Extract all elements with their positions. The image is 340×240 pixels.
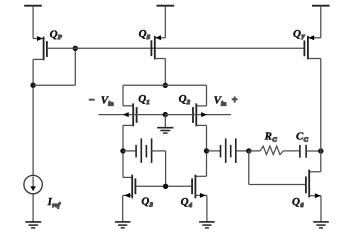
svg-text:ref: ref (52, 202, 60, 209)
wire tail rail to Q1/Q2 sources (123, 85, 207, 106)
wire QP drain down to Iref (32, 59, 34, 176)
VDD rail right (312, 6, 330, 38)
battery B2 (Q2 drain to second stage) (207, 138, 249, 163)
svg-text:2: 2 (186, 99, 191, 106)
ground (Iref) (25, 222, 41, 228)
transistor Q6 (306, 170, 321, 222)
node Q3/Q4 gate junction (163, 184, 168, 189)
label Q1 (138, 93, 149, 106)
svg-text:5: 5 (147, 34, 151, 41)
label QP (50, 28, 63, 41)
svg-text:P: P (58, 34, 63, 41)
node Q2 drain / battery junction (204, 148, 209, 153)
svg-text:in: in (108, 101, 114, 108)
wire Q3/Q4 gate line (135, 185, 192, 187)
ground (between Q1 and Q2) (157, 115, 173, 134)
svg-text:Q: Q (293, 28, 301, 40)
svg-text:C: C (272, 136, 277, 143)
svg-text:3: 3 (149, 202, 154, 209)
svg-text:Q: Q (139, 28, 147, 40)
wire Q2 drain down (206, 125, 208, 176)
node input common-mode junction (163, 112, 168, 117)
svg-text:+: + (232, 95, 238, 106)
label Q5 (139, 28, 151, 41)
wire Q1 drain down (122, 125, 124, 177)
svg-text:7: 7 (301, 34, 305, 41)
node Q1 drain / battery junction (120, 148, 125, 153)
wire bias line (gates of QP, Q5, Q7) (47, 47, 305, 49)
label RC (264, 130, 278, 143)
resistor RC (249, 146, 300, 155)
svg-text:C: C (304, 136, 309, 143)
node compensation input junction (246, 148, 251, 153)
node QP drain / diode loop junction (30, 83, 35, 88)
svg-text:4: 4 (188, 202, 193, 209)
svg-text:−: − (89, 95, 95, 106)
wire Q7 drain down to output node (320, 59, 322, 172)
svg-text:Q: Q (292, 196, 300, 208)
svg-text:Q: Q (179, 93, 187, 105)
svg-text:Q: Q (141, 196, 149, 208)
label Q4 (181, 196, 193, 209)
capacitor CC (300, 145, 321, 158)
transistor Q7 (304, 35, 320, 59)
label Q3 (141, 196, 153, 209)
ground (Q3) (115, 222, 131, 228)
label Iref (47, 196, 61, 209)
battery B1 (Q1 drain to Q3/Q4 gates) (123, 138, 166, 186)
svg-text:R: R (264, 130, 272, 142)
svg-text:1: 1 (146, 99, 149, 106)
svg-text:Q: Q (50, 28, 58, 40)
transistor Q4 (192, 175, 207, 222)
label Q6 (292, 196, 304, 209)
ground (Q6) (313, 222, 329, 228)
VDD rail left (24, 6, 42, 39)
transistor Q3 (123, 175, 136, 222)
transistor Q2 (165, 103, 231, 126)
svg-text:in: in (221, 101, 227, 108)
wire Q5 drain to tail node (164, 59, 166, 86)
VDD rail middle (157, 6, 175, 38)
wire diode-connection loop (33, 48, 75, 85)
node tail junction (163, 83, 168, 88)
svg-text:Q: Q (181, 196, 189, 208)
transistor QP (33, 36, 47, 60)
label CC (296, 130, 309, 143)
current source Iref (24, 175, 42, 221)
node bias line junction (73, 46, 78, 51)
label Q7 (293, 28, 305, 41)
node output junction (318, 148, 323, 153)
transistor Q5 (151, 35, 165, 59)
ground (Q4) (199, 222, 215, 228)
wire to Q6 gate (249, 151, 306, 185)
svg-text:6: 6 (300, 202, 304, 209)
label -Vin (89, 95, 114, 108)
label Q2 (179, 93, 191, 106)
label Vin+ (214, 95, 238, 108)
svg-text:Q: Q (138, 93, 146, 105)
transistor Q1 (98, 103, 165, 126)
